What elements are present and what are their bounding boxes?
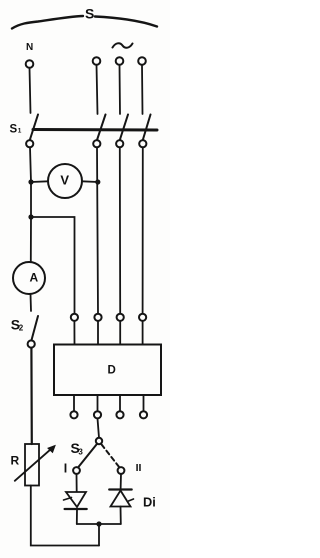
stub out of D c bbox=[119, 395, 121, 411]
svg-text:Di: Di bbox=[143, 495, 156, 510]
S3 blade to I (closed) bbox=[78, 444, 97, 467]
junction dot V left bbox=[28, 179, 33, 184]
svg-text:S: S bbox=[85, 6, 94, 22]
stub into D 0 bbox=[73, 321, 75, 344]
svg-text:3: 3 bbox=[78, 448, 83, 457]
stub out of D d bbox=[143, 395, 145, 411]
wire diode1 to bus bbox=[76, 509, 78, 524]
wire S1 pole4 down bbox=[142, 147, 144, 313]
S1 contact pole 4 bbox=[139, 140, 146, 147]
svg-text:A: A bbox=[30, 271, 39, 285]
S3 contact II bbox=[118, 467, 125, 474]
rheostat arrow bbox=[15, 447, 54, 481]
junction dot tap bbox=[28, 214, 33, 219]
stub into D 1 bbox=[97, 321, 99, 344]
terminal above D line3 bbox=[139, 314, 146, 321]
wire L3 to S1 bbox=[141, 65, 144, 114]
rheostat R body bbox=[25, 444, 39, 486]
terminal above D line2 bbox=[117, 314, 124, 321]
terminal L2 bbox=[116, 57, 124, 65]
wire II to diode 2 bbox=[120, 474, 122, 490]
svg-text:N: N bbox=[26, 42, 33, 53]
voltmeter V bbox=[48, 164, 82, 198]
wire V right bbox=[82, 180, 98, 183]
terminal N bbox=[26, 60, 34, 68]
S2 contact bbox=[28, 340, 35, 347]
terminal above D line1 bbox=[94, 314, 101, 321]
svg-text:R: R bbox=[11, 454, 20, 468]
junction dot bus bbox=[96, 521, 101, 526]
terminal below D a bbox=[70, 411, 77, 418]
wire D to S3 bbox=[98, 419, 100, 438]
wire tap to rectifier line bbox=[31, 217, 75, 314]
S3 blade to II (dashed) bbox=[102, 444, 120, 467]
S1 contact pole 1 bbox=[26, 140, 33, 147]
wire V left bbox=[31, 180, 48, 183]
svg-text:S: S bbox=[10, 124, 18, 136]
wire A to S2 bbox=[30, 294, 33, 311]
terminal below D c bbox=[116, 411, 123, 418]
wire S1 pole1 down left rail bbox=[30, 147, 31, 262]
wire S1 pole2 down bbox=[97, 147, 98, 313]
S1 blade pole 2 bbox=[97, 115, 106, 141]
svg-text:D: D bbox=[108, 365, 116, 377]
brace for net S bbox=[12, 16, 157, 29]
svg-text:II: II bbox=[136, 462, 142, 474]
S1 blade pole 1 bbox=[30, 115, 38, 141]
block D bbox=[54, 345, 161, 396]
bottom bus diodes bbox=[77, 523, 121, 525]
S1 blade pole 3 bbox=[120, 115, 128, 141]
svg-text:2: 2 bbox=[19, 324, 24, 333]
terminal below D b bbox=[94, 411, 101, 418]
diode Di branch I (cathode down) bbox=[66, 492, 86, 507]
switch S1 gang bar bbox=[33, 128, 157, 132]
S1 contact pole 3 bbox=[116, 140, 123, 147]
terminal above D line0 bbox=[71, 314, 78, 321]
terminal L1 bbox=[93, 57, 101, 65]
S3 pivot bbox=[96, 438, 102, 444]
stub out of D a bbox=[73, 395, 75, 411]
svg-text:V: V bbox=[60, 173, 69, 188]
stub into D 3 bbox=[142, 321, 144, 344]
wire S1 pole3 down bbox=[119, 147, 121, 313]
svg-text:1: 1 bbox=[18, 127, 22, 134]
wire I to diode 1 bbox=[76, 474, 78, 492]
S1 contact pole 2 bbox=[93, 140, 100, 147]
junction dot V right bbox=[95, 179, 100, 184]
S2 blade bbox=[31, 316, 38, 341]
stub out of D b bbox=[97, 395, 99, 411]
S3 contact I bbox=[73, 467, 80, 474]
tilde (AC) bbox=[113, 43, 133, 48]
svg-text:I: I bbox=[64, 462, 67, 476]
bottom return wire bbox=[31, 486, 99, 546]
wire bus down bbox=[98, 524, 100, 546]
S1 blade pole 4 bbox=[143, 115, 151, 141]
wire S2 to R bbox=[30, 348, 33, 444]
stub into D 2 bbox=[119, 321, 121, 344]
wire L2 to S1 bbox=[119, 65, 122, 114]
diode Di branch II (cathode up) bbox=[109, 488, 132, 490]
ammeter A bbox=[13, 262, 45, 294]
terminal below D d bbox=[140, 411, 147, 418]
wire N to S1 bbox=[30, 68, 31, 113]
wire diode2 to bus bbox=[120, 507, 122, 525]
terminal L3 bbox=[138, 57, 146, 65]
wire L1 to S1 bbox=[97, 65, 98, 114]
